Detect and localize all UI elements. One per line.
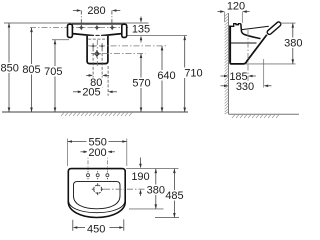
basin front: rim bottom edge right	[102, 34, 122, 38]
dim 205 ticks	[81, 88, 83, 96]
dim 200 arrows (outside)	[81, 151, 86, 153]
basin front: left end bulb	[68, 24, 73, 37]
basin side profile: rim ledge line to front	[241, 26, 269, 30]
dim 330 right extension line	[263, 59, 265, 88]
tap hole marker left (front)	[79, 25, 84, 30]
dim 190 label	[130, 171, 151, 182]
dim 450 ticks	[72, 220, 74, 231]
rim top extension line	[4, 22, 149, 24]
dim 805 (vertical)	[31, 28, 33, 112]
svg-text:330: 330	[236, 81, 254, 93]
svg-text:120: 120	[227, 0, 245, 12]
tap hole right (plan)	[106, 171, 109, 179]
basin side profile: pedestal bottom and slant front	[230, 35, 267, 64]
dim 190 (vertical) arrows outside	[140, 158, 142, 166]
svg-text:450: 450	[87, 224, 105, 236]
dim 380 (plan) bottom tick line	[129, 208, 164, 210]
dim 550 line + arrows	[68, 141, 127, 143]
dim 380 (side) line + arrows	[292, 23, 294, 64]
tap hole marker right (front)	[110, 25, 115, 30]
dim 185 label	[230, 71, 248, 81]
drain center marker (pedestal, open diamond)	[93, 50, 101, 58]
plan top extension line (right)	[126, 168, 179, 170]
basin front: center overflow tab	[96, 36, 99, 38]
svg-text:705: 705	[44, 66, 62, 78]
dim 450 line + arrows	[75, 227, 85, 229]
dim 330 label	[235, 81, 256, 91]
floor line (front view ground)	[2, 111, 188, 113]
svg-text:380: 380	[147, 185, 165, 197]
dim 120 extension lines	[224, 12, 226, 22]
dim 550 extension lines	[67, 139, 69, 167]
wall line	[228, 13, 230, 114]
dim 200 extension dashes down to outer holes	[87, 152, 89, 171]
fixing hole marker right (pedestal, filled)	[100, 43, 105, 48]
tap-hole centerline (dash-dot) front view	[30, 27, 130, 29]
bottom tick line for 135/710 (basin underside extension)	[128, 35, 188, 37]
dim 205 label	[81, 87, 102, 97]
dim 380 (side) top tick line	[281, 22, 296, 24]
svg-text:280: 280	[87, 5, 105, 17]
dim 485 (plan) bottom tick line	[155, 217, 179, 219]
svg-text:190: 190	[131, 171, 149, 183]
basin front: rim bottom edge left	[72, 34, 93, 38]
floor line (side view)	[229, 113, 300, 115]
dim 80 arrows	[86, 74, 91, 76]
plan inner bowl outline	[74, 182, 121, 209]
svg-text:135: 135	[132, 24, 150, 36]
dim 135 label	[131, 24, 152, 34]
dim 640 (vertical)	[161, 46, 163, 112]
705 tick line (left underside extension)	[52, 39, 69, 41]
basin side body fill	[229, 24, 261, 64]
pedestal hidden top edge (dashed)	[88, 38, 107, 40]
floor hatching (front view)	[61, 113, 132, 117]
semi-pedestal (siphon cover)	[87, 36, 108, 64]
dim 570 (vertical)	[140, 54, 142, 113]
dim 850 (vertical, left)	[8, 23, 10, 112]
plan rim inner front arc	[69, 201, 126, 213]
dim 330 arrows	[221, 85, 227, 87]
dim 485 (plan) line + arrows	[173, 169, 175, 218]
drain symbol (plan): circle with cross ticks	[92, 183, 104, 195]
basin side profile: back edge against wall	[229, 26, 231, 63]
dim 80 extension dashes	[92, 49, 94, 89]
basin side profile: deck right face and bowl bottom	[241, 24, 261, 39]
pedestal drain axis (dash-dot vertical)	[96, 40, 98, 67]
svg-text:205: 205	[82, 87, 100, 99]
dim 135 line + arrows	[140, 17, 142, 21]
basin side profile: front rim section (tilted capsule)	[269, 24, 278, 32]
tap hole left (plan)	[87, 171, 90, 179]
dim 380 (side) bottom tick line	[246, 63, 296, 65]
dim 185 arrows	[221, 75, 227, 77]
basin front: rim top edge	[72, 23, 123, 25]
svg-text:640: 640	[157, 70, 175, 82]
dim 205 arrows	[73, 91, 80, 93]
tap hole marker center (front)	[94, 25, 99, 30]
lower pedestal dash-dot (570 ref line)	[91, 53, 146, 55]
fixing hole marker left (pedestal, filled)	[91, 43, 96, 48]
dim 120 line + arrows	[218, 11, 223, 13]
plan outline (top view of basin)	[68, 169, 125, 218]
dim 280 label	[86, 5, 107, 16]
basin side profile: seam line	[231, 42, 257, 44]
dim 80 label	[90, 78, 105, 88]
svg-text:200: 200	[88, 147, 106, 159]
svg-text:485: 485	[165, 190, 183, 202]
basin side profile: step and tap deck	[229, 24, 241, 27]
svg-text:570: 570	[132, 78, 150, 90]
upper pedestal dash-dot (640 ref line)	[88, 45, 167, 47]
svg-text:710: 710	[184, 68, 202, 80]
wall hatching	[225, 13, 229, 114]
dim 380 (plan) line + arrows	[155, 169, 157, 209]
dim 705 (vertical)	[54, 40, 56, 112]
tap hole center (plan)	[96, 171, 99, 179]
basin front: right end bulb	[122, 24, 127, 37]
dim 200 label	[87, 147, 108, 157]
dim 280 line + arrows	[73, 11, 120, 27]
drain centerline (plan, dash-dot horizontal)	[104, 188, 146, 190]
svg-text:805: 805	[22, 64, 40, 76]
svg-text:380: 380	[284, 38, 302, 50]
svg-text:850: 850	[1, 63, 19, 75]
dim 710 (vertical)	[184, 36, 186, 112]
drain axis (side view, dash-dot)	[247, 30, 249, 89]
dim 450 label	[85, 223, 108, 234]
floor hatching (side view)	[232, 115, 279, 118]
